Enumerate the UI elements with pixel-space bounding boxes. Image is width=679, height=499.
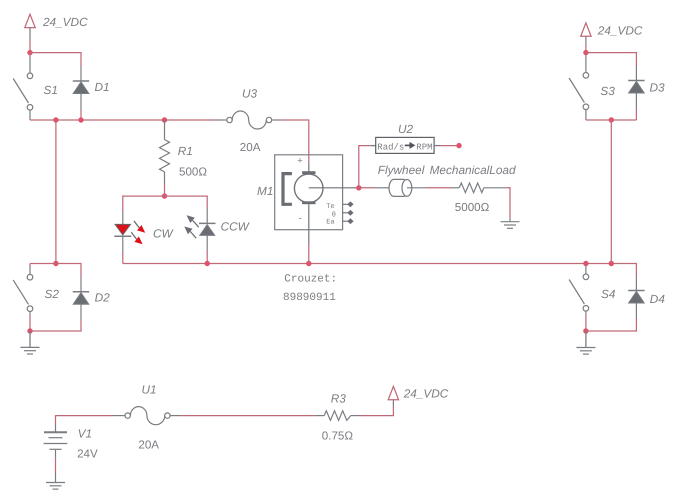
svg-text:24_VDC: 24_VDC xyxy=(403,386,449,400)
svg-text:D2: D2 xyxy=(95,291,111,305)
power 24_VDC arrow top-right xyxy=(581,23,591,45)
ground (V1) xyxy=(46,473,65,489)
svg-text:Ea: Ea xyxy=(326,218,334,226)
wire flywheel to load resistor xyxy=(425,187,451,189)
svg-text:Flywheel: Flywheel xyxy=(378,163,425,177)
wire CCW bottom xyxy=(206,250,208,264)
svg-text:0.75Ω: 0.75Ω xyxy=(322,429,354,442)
power 24_VDC arrow bottom-right xyxy=(388,386,398,406)
svg-text:CCW: CCW xyxy=(221,220,251,234)
wire left rail down xyxy=(55,120,57,264)
wire U1 to R3 xyxy=(180,415,315,417)
fuse U3 xyxy=(215,111,282,129)
wire M1 minus to middle rail xyxy=(308,243,310,264)
junction S4 bottom xyxy=(583,328,588,333)
svg-text:R1: R1 xyxy=(178,144,193,158)
wire stub S4 top xyxy=(585,264,587,268)
svg-text:+: + xyxy=(297,156,303,167)
wire S2 row top xyxy=(30,264,81,278)
wire D1 bottom xyxy=(80,110,82,120)
wire shaft to U2 xyxy=(359,146,370,188)
flywheel (Flywheel) xyxy=(375,179,425,196)
junction S1-rail xyxy=(53,117,58,122)
junction right rail top xyxy=(609,117,614,122)
svg-text:Rad/s: Rad/s xyxy=(377,142,404,152)
M1 pin theta xyxy=(332,210,354,220)
wire load to ground xyxy=(506,188,510,218)
svg-text:M1: M1 xyxy=(257,184,273,198)
resistor MechanicalLoad 5000ohm xyxy=(451,183,506,193)
wire S4 to ground xyxy=(585,331,587,348)
switch S1 xyxy=(13,57,33,120)
svg-text:U1: U1 xyxy=(142,383,157,397)
junction CCW-middle xyxy=(205,261,210,266)
svg-text:CW: CW xyxy=(153,226,175,240)
wire shaft to junction xyxy=(356,187,359,189)
wire node to D3 top xyxy=(586,53,637,66)
wire U2 output open end xyxy=(440,145,459,147)
wire stub S2 top xyxy=(29,264,31,268)
svg-text:24V: 24V xyxy=(77,448,98,461)
wire V1 bottom to ground xyxy=(55,458,57,473)
wire S2 to D2 bottom xyxy=(30,320,81,331)
junction M1-middle xyxy=(306,261,311,266)
svg-text:U2: U2 xyxy=(398,122,414,136)
diode D2 xyxy=(73,277,89,320)
wire CW bottom to middle rail xyxy=(122,252,124,264)
junction R1-LED wire xyxy=(162,193,167,198)
switch S2 xyxy=(13,267,33,315)
svg-text:20A: 20A xyxy=(138,438,159,451)
svg-text:5000Ω: 5000Ω xyxy=(455,201,490,214)
svg-text:D1: D1 xyxy=(95,80,110,94)
svg-text:Crouzet:: Crouzet: xyxy=(284,273,337,285)
junction S2 bottom xyxy=(27,328,32,333)
converter U2 Rad/s to RPM xyxy=(370,137,440,153)
switch S3 xyxy=(569,57,589,120)
svg-text:D3: D3 xyxy=(650,81,666,95)
power 24_VDC arrow top-left xyxy=(25,14,35,40)
svg-text:20A: 20A xyxy=(240,141,261,154)
svg-text:U3: U3 xyxy=(242,86,258,100)
svg-text:S1: S1 xyxy=(44,83,58,97)
wire S2 to ground xyxy=(29,331,31,347)
diode D4 xyxy=(628,277,644,318)
junction node top-right xyxy=(583,50,588,55)
wire stub S3 top xyxy=(585,53,587,58)
wire R1 bottom xyxy=(164,184,166,196)
junction S4-top xyxy=(583,261,588,266)
wire shaft to flywheel xyxy=(359,187,375,189)
wire S1 row to fuse U3 xyxy=(30,119,215,121)
wire LED top rail xyxy=(123,196,207,212)
wire arrow TR to node xyxy=(585,45,587,53)
junction node top-left xyxy=(27,50,32,55)
junction R1-top xyxy=(162,117,167,122)
svg-text:-: - xyxy=(299,213,302,224)
junction D1-bottom xyxy=(78,117,83,122)
wire S2 bottom pin xyxy=(29,315,31,332)
svg-text:S3: S3 xyxy=(600,84,615,98)
diode D1 xyxy=(73,66,89,110)
ground (S4) xyxy=(576,348,595,355)
svg-text:S4: S4 xyxy=(601,287,616,301)
svg-text:24_VDC: 24_VDC xyxy=(42,15,88,29)
svg-text:RPM: RPM xyxy=(416,142,432,152)
wire S4 to D4 bottom xyxy=(586,318,637,331)
junction S2 top xyxy=(53,261,58,266)
LED CCW xyxy=(184,208,215,250)
motor M1 xyxy=(275,155,356,243)
svg-text:S2: S2 xyxy=(45,287,60,301)
wire node to D1 top xyxy=(30,53,81,66)
svg-text:500Ω: 500Ω xyxy=(179,166,207,179)
wire D3 bottom xyxy=(635,108,637,120)
wire arrow TL to node xyxy=(29,40,31,53)
svg-text:D4: D4 xyxy=(650,292,666,306)
wire stub S1 top xyxy=(29,53,31,58)
svg-text:24_VDC: 24_VDC xyxy=(597,23,643,37)
svg-text:V1: V1 xyxy=(78,426,92,440)
battery V1 xyxy=(44,424,68,458)
wire U3 to M1 plus xyxy=(281,120,308,163)
svg-text:R3: R3 xyxy=(331,391,347,405)
wire S4 bottom pin xyxy=(585,315,587,332)
resistor R3 xyxy=(315,411,359,421)
svg-text:89890911: 89890911 xyxy=(283,292,336,304)
switch S4 xyxy=(569,267,589,315)
ground (load) xyxy=(501,218,520,228)
svg-text:Te: Te xyxy=(326,203,334,211)
wire S3 row xyxy=(586,119,637,121)
wire right rail down xyxy=(610,120,612,264)
wire R3 to arrow BR xyxy=(359,406,393,416)
resistor R1 xyxy=(160,120,170,184)
ground (S2) xyxy=(21,347,40,354)
svg-text:MechanicalLoad: MechanicalLoad xyxy=(430,163,516,177)
junction shaft node xyxy=(356,185,361,190)
wire middle rail xyxy=(123,264,637,278)
diode D3 xyxy=(628,66,644,108)
LED CW xyxy=(114,212,145,252)
M1 pin Te xyxy=(326,201,353,211)
junction right-rail-middle xyxy=(609,261,614,266)
fuse U1 xyxy=(113,407,180,425)
M1 pin Ea xyxy=(326,218,353,226)
wire V1 top to fuse row xyxy=(56,416,114,424)
open end node U2 xyxy=(456,143,461,148)
